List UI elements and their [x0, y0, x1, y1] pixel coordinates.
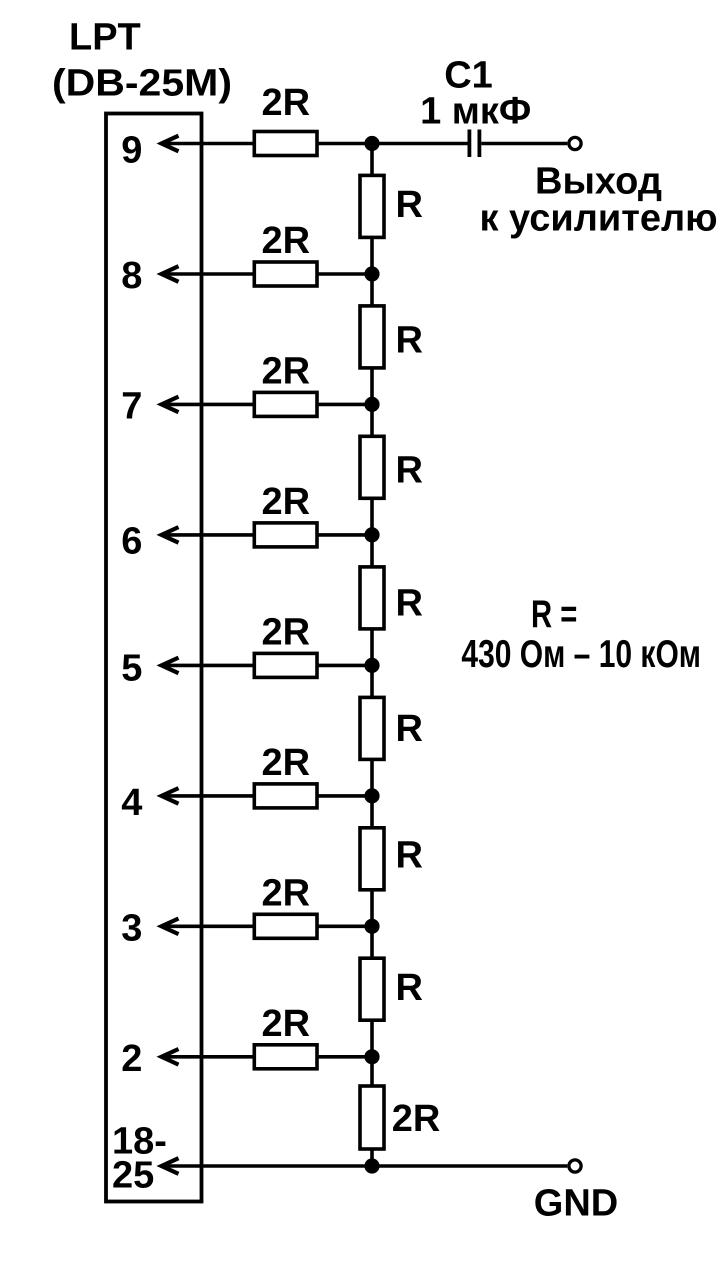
resistor 2R (termination, bottom) — [360, 1086, 384, 1149]
svg-text:3: 3 — [121, 907, 142, 949]
LPT connector box (DB-25M) — [106, 114, 202, 1202]
svg-text:2: 2 — [121, 1038, 142, 1080]
resistor R (between pin 3 and pin 2) — [360, 958, 384, 1020]
wire resistor to ladder (pin 3) — [317, 924, 372, 928]
resistor 2R (pin 5 branch) — [254, 653, 317, 677]
pin 6 arrow — [162, 527, 179, 543]
wire pin 8 to resistor 2R — [163, 272, 254, 276]
wire pin 3 to resistor 2R — [163, 924, 254, 928]
resistor 2R (pin 2 branch) — [254, 1045, 317, 1069]
node: junction on ground rail — [364, 1158, 379, 1173]
wire resistor to ladder (pin 6) — [317, 533, 372, 537]
pin 18-25 arrow — [162, 1158, 179, 1174]
node: junction at pin 6 rung — [364, 527, 379, 542]
node: junction at pin 8 rung — [364, 266, 379, 281]
pin 3 arrow — [162, 919, 179, 935]
resistor 2R (pin 8 branch) — [254, 262, 317, 286]
wire resistor to ladder (pin 9) — [317, 142, 372, 146]
wire resistor to ladder (pin 5) — [317, 664, 372, 668]
resistor 2R (pin 4 branch) — [254, 784, 317, 808]
pin 9 arrow — [162, 136, 179, 152]
node: junction at pin 3 rung — [364, 919, 379, 934]
wire: ladder vertical bus — [370, 144, 374, 1167]
resistor R (between pin 6 and pin 5) — [360, 567, 384, 629]
wire resistor to ladder (pin 4) — [317, 794, 372, 798]
resistor R (between pin 4 and pin 3) — [360, 828, 384, 890]
wire resistor to ladder (pin 7) — [317, 403, 372, 407]
node: junction at pin 7 rung — [364, 397, 379, 412]
svg-text:1 мкФ: 1 мкФ — [420, 90, 531, 132]
svg-text:2R: 2R — [262, 1003, 311, 1045]
svg-text:GND: GND — [534, 1183, 618, 1225]
wire pin 7 to resistor 2R — [163, 403, 254, 407]
pin 7 arrow — [162, 397, 179, 413]
svg-text:2R: 2R — [262, 742, 311, 784]
svg-text:R: R — [396, 967, 423, 1009]
resistor R (between pin 5 and pin 4) — [360, 697, 384, 759]
svg-text:к усилителю: к усилителю — [479, 197, 717, 239]
svg-text:LPT: LPT — [69, 16, 141, 58]
svg-text:2R: 2R — [262, 872, 311, 914]
wire pin 4 to resistor 2R — [163, 794, 254, 798]
resistor 2R (pin 3 branch) — [254, 914, 317, 938]
pin 4 arrow — [162, 788, 179, 804]
resistor 2R (pin 7 branch) — [254, 392, 317, 416]
pin 2 arrow — [162, 1049, 179, 1065]
svg-text:5: 5 — [121, 647, 142, 689]
svg-text:4: 4 — [121, 782, 142, 824]
svg-text:2R: 2R — [262, 611, 311, 653]
svg-text:7: 7 — [121, 385, 142, 427]
node: junction at pin 5 rung — [364, 658, 379, 673]
svg-text:2R: 2R — [392, 1098, 441, 1140]
capacitor C1 plates — [467, 130, 471, 158]
svg-text:2R: 2R — [262, 481, 311, 523]
svg-text:(DB-25M): (DB-25M) — [52, 62, 232, 104]
wire pin 6 to resistor 2R — [163, 533, 254, 537]
resistor R (between pin 7 and pin 6) — [360, 436, 384, 498]
svg-text:9: 9 — [121, 130, 142, 172]
wire pin 5 to resistor 2R — [163, 664, 254, 668]
GND terminal (open circle) — [569, 1160, 581, 1172]
pin 5 arrow — [162, 658, 179, 674]
svg-text:R: R — [396, 708, 423, 750]
wire 18-25 ground rail — [163, 1164, 567, 1168]
svg-text:R: R — [396, 184, 423, 226]
svg-text:8: 8 — [121, 255, 142, 297]
resistor R (between pin 9 and pin 8) — [360, 175, 384, 237]
output terminal (open circle) — [569, 137, 581, 149]
pin 8 arrow — [162, 266, 179, 282]
svg-text:6: 6 — [121, 520, 142, 562]
node: junction at pin 9 rung — [364, 136, 379, 151]
wire resistor to ladder (pin 2) — [317, 1055, 372, 1059]
svg-text:R: R — [396, 835, 423, 877]
svg-text:430 Ом – 10 кОм: 430 Ом – 10 кОм — [461, 633, 701, 676]
svg-text:R =: R = — [531, 593, 577, 636]
resistor R (between pin 8 and pin 7) — [360, 306, 384, 368]
svg-text:2R: 2R — [262, 350, 311, 392]
resistor 2R (pin 6 branch) — [254, 523, 317, 547]
svg-text:R: R — [396, 583, 423, 625]
resistor 2R (pin 9 branch) — [254, 132, 317, 156]
wire pin 9 to resistor 2R — [163, 142, 254, 146]
svg-text:R: R — [396, 319, 423, 361]
wire ladder top to capacitor C1 — [372, 142, 468, 146]
svg-text:R: R — [396, 450, 423, 492]
wire resistor to ladder (pin 8) — [317, 272, 372, 276]
svg-text:2R: 2R — [262, 220, 311, 262]
node: junction at pin 4 rung — [364, 788, 379, 803]
node: junction at pin 2 rung — [364, 1049, 379, 1064]
svg-text:25: 25 — [112, 1155, 154, 1197]
wire pin 2 to resistor 2R — [163, 1055, 254, 1059]
svg-text:2R: 2R — [262, 82, 311, 124]
wire capacitor to output terminal — [481, 142, 567, 146]
